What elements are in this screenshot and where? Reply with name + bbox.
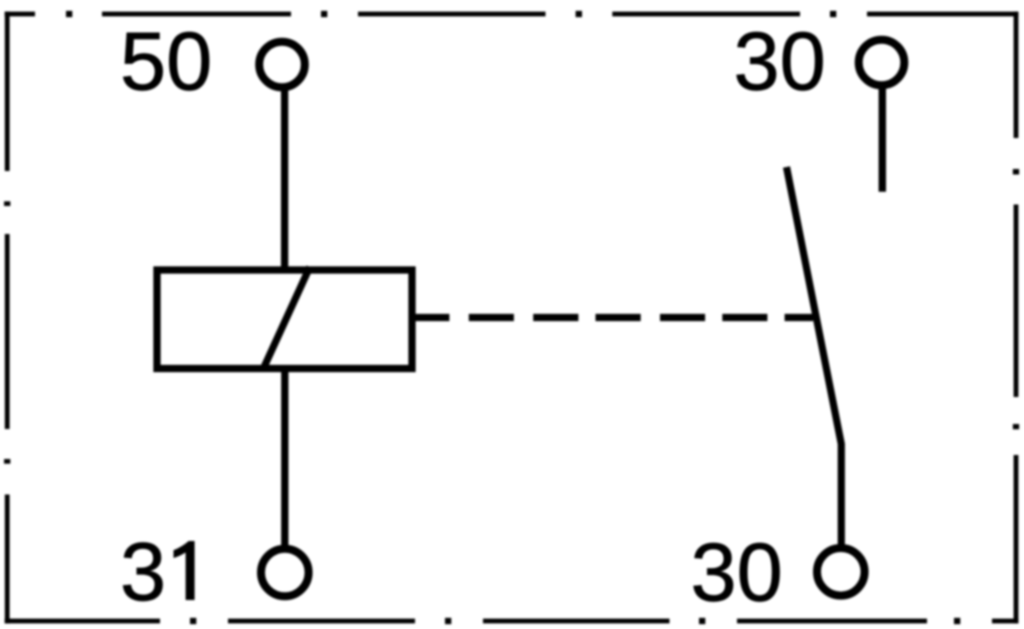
bottom edge xyxy=(5,619,1019,624)
left edge xyxy=(5,12,10,624)
right edge xyxy=(1014,12,1019,624)
terminal label 30 (bottom) xyxy=(691,525,783,618)
terminal 30 bottom (circle) xyxy=(817,548,865,596)
terminal 50 (circle) xyxy=(259,42,305,88)
terminal 31 (circle) xyxy=(261,549,309,597)
terminal label 31 xyxy=(120,525,195,618)
coil diagonal stroke xyxy=(263,267,310,370)
wire: fixed contact stub from terminal 30 (top) xyxy=(879,87,886,192)
top edge xyxy=(5,12,1019,17)
switch contact arm (lever) xyxy=(787,167,842,551)
wire: relay coil to terminal 31 xyxy=(281,367,288,551)
svg-text:3: 3 xyxy=(120,525,166,618)
relay coil K1 (box) xyxy=(157,270,412,369)
wire: terminal 50 to relay coil xyxy=(281,88,288,270)
terminal label 50 xyxy=(120,15,212,108)
svg-text:30: 30 xyxy=(734,15,826,108)
terminal label 30 (top) xyxy=(734,15,826,108)
mechanical linkage (dashed line, coil to contact arm) xyxy=(412,314,813,321)
svg-text:50: 50 xyxy=(120,15,212,108)
terminal 30 top (circle) xyxy=(859,40,905,86)
svg-text:30: 30 xyxy=(691,525,783,618)
